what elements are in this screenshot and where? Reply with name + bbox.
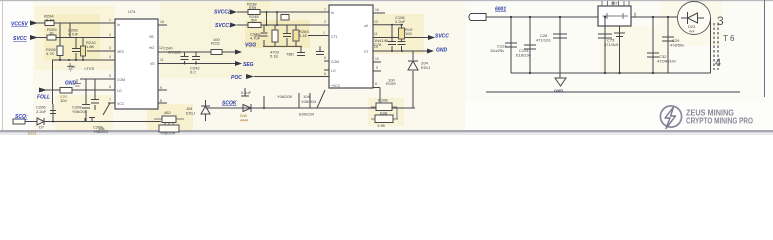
svg-text:3: 3 bbox=[109, 46, 111, 50]
svg-text:VB: VB bbox=[149, 35, 154, 39]
svg-text:1.98: 1.98 bbox=[377, 123, 386, 128]
svg-text:VGG: VGG bbox=[245, 43, 256, 49]
svg-text:GND: GND bbox=[65, 81, 77, 87]
svg-text:5M: 5M bbox=[251, 18, 257, 23]
svg-text:100: 100 bbox=[388, 78, 395, 83]
svg-text:7: 7 bbox=[109, 98, 111, 102]
svg-text:5.1E: 5.1E bbox=[270, 54, 279, 59]
svg-text:100: 100 bbox=[405, 31, 412, 36]
svg-text:9: 9 bbox=[160, 86, 162, 90]
svg-text:HO: HO bbox=[149, 46, 154, 50]
svg-text:Y06/204: Y06/204 bbox=[301, 99, 317, 104]
svg-text:104: 104 bbox=[60, 98, 67, 103]
svg-text:CT1: CT1 bbox=[331, 35, 338, 39]
svg-text:478/50v: 478/50v bbox=[670, 43, 684, 48]
svg-text:471/3c9: 471/3c9 bbox=[604, 42, 619, 47]
svg-text:Y06/204: Y06/204 bbox=[72, 109, 88, 114]
svg-text:CRYPTO MINING PRO: CRYPTO MINING PRO bbox=[686, 116, 753, 126]
svg-text:E98: E98 bbox=[380, 111, 388, 116]
svg-text:4444: 4444 bbox=[240, 119, 248, 123]
svg-text:GND: GND bbox=[554, 89, 563, 94]
svg-text:4.7uF: 4.7uF bbox=[250, 36, 261, 41]
svg-text:VCC5V: VCC5V bbox=[11, 22, 28, 28]
svg-text:4.7uF: 4.7uF bbox=[68, 32, 79, 37]
svg-text:11: 11 bbox=[374, 32, 378, 36]
svg-text:Y06/209: Y06/209 bbox=[277, 94, 293, 99]
svg-text:11: 11 bbox=[160, 58, 164, 62]
svg-text:8: 8 bbox=[375, 82, 377, 86]
svg-text:10k: 10k bbox=[98, 126, 104, 131]
svg-text:LO: LO bbox=[331, 69, 336, 73]
svg-text:13: 13 bbox=[374, 20, 378, 24]
svg-text:4: 4 bbox=[715, 57, 721, 69]
svg-text:=TVS: =TVS bbox=[84, 66, 94, 71]
svg-text:487: 487 bbox=[611, 1, 618, 6]
svg-text:D7: D7 bbox=[39, 125, 45, 130]
svg-text:3: 3 bbox=[717, 14, 724, 28]
svg-text:1K: 1K bbox=[49, 31, 54, 36]
svg-text:0K/182: 0K/182 bbox=[168, 50, 181, 55]
svg-text:10u/25v: 10u/25v bbox=[490, 48, 504, 53]
svg-text:1: 1 bbox=[109, 18, 111, 22]
svg-text:SVCC: SVCC bbox=[435, 34, 449, 40]
svg-text:E51J: E51J bbox=[421, 65, 430, 70]
svg-text:SEG: SEG bbox=[243, 62, 254, 68]
svg-text:2: 2 bbox=[324, 20, 326, 24]
svg-text:471/103: 471/103 bbox=[536, 38, 551, 43]
svg-text:SVCC1: SVCC1 bbox=[215, 23, 232, 29]
svg-text:T 6: T 6 bbox=[723, 34, 735, 43]
svg-text:6: 6 bbox=[324, 72, 326, 76]
svg-text:E99: E99 bbox=[249, 5, 257, 10]
svg-text:+VCC: +VCC bbox=[331, 84, 341, 88]
svg-text:16: 16 bbox=[375, 8, 379, 12]
svg-text:COM: COM bbox=[117, 78, 125, 82]
svg-text:9: 9 bbox=[376, 66, 378, 70]
svg-text:VS: VS bbox=[150, 62, 155, 66]
svg-text:0.1uF: 0.1uF bbox=[241, 90, 252, 95]
svg-text:SVCC2: SVCC2 bbox=[214, 10, 231, 16]
svg-text:1.8K: 1.8K bbox=[86, 44, 95, 49]
svg-text:R108: R108 bbox=[378, 98, 388, 103]
svg-text:4724F/10v: 4724F/10v bbox=[657, 59, 676, 64]
svg-text:2: 2 bbox=[109, 33, 111, 37]
svg-text:1: 1 bbox=[323, 31, 325, 35]
svg-text:SCQ:: SCQ: bbox=[15, 114, 28, 120]
svg-text:GND: GND bbox=[436, 48, 448, 54]
svg-text:E09/234: E09/234 bbox=[299, 112, 315, 117]
svg-text:E51J: E51J bbox=[186, 111, 195, 116]
svg-text:LO: LO bbox=[117, 89, 122, 93]
svg-text:10: 10 bbox=[375, 57, 379, 61]
svg-text:4x4: 4x4 bbox=[689, 30, 695, 34]
svg-text:VES: VES bbox=[117, 50, 125, 54]
svg-text:5: 5 bbox=[324, 56, 326, 60]
svg-text:6001: 6001 bbox=[495, 7, 506, 13]
svg-text:2.2uF: 2.2uF bbox=[36, 109, 47, 114]
svg-text:Y5V: Y5V bbox=[68, 64, 76, 69]
svg-text:TBD: TBD bbox=[286, 52, 294, 57]
svg-text:COM: COM bbox=[331, 60, 339, 64]
svg-text:o5: o5 bbox=[364, 24, 368, 28]
svg-text:E221: E221 bbox=[28, 132, 36, 136]
svg-text:D23: D23 bbox=[688, 24, 696, 29]
svg-text:VT: VT bbox=[364, 50, 368, 54]
svg-text:482: 482 bbox=[164, 110, 171, 115]
svg-text:FOLL: FOLL bbox=[37, 95, 50, 101]
svg-text:100: 100 bbox=[213, 37, 220, 42]
svg-text:In: In bbox=[331, 11, 334, 15]
svg-text:0.1E: 0.1E bbox=[299, 33, 308, 38]
svg-text:VCC: VCC bbox=[117, 102, 125, 106]
svg-text:2.2uF: 2.2uF bbox=[395, 19, 406, 24]
svg-text:6: 6 bbox=[109, 85, 111, 89]
svg-text:SVCC: SVCC bbox=[13, 36, 27, 42]
svg-text:0.C: 0.C bbox=[190, 70, 196, 75]
svg-text:8: 8 bbox=[160, 99, 162, 103]
svg-text:SCOK: SCOK bbox=[222, 101, 237, 107]
svg-text:4: 4 bbox=[109, 55, 111, 59]
svg-text:18: 18 bbox=[160, 20, 164, 24]
svg-text:D08: D08 bbox=[240, 114, 247, 118]
svg-text:C78: C78 bbox=[374, 42, 382, 47]
svg-text:In: In bbox=[117, 23, 120, 27]
svg-text:4.7K: 4.7K bbox=[46, 51, 55, 56]
svg-text:5: 5 bbox=[109, 74, 111, 78]
svg-text:POC: POC bbox=[231, 75, 242, 81]
svg-text:U74: U74 bbox=[128, 9, 136, 14]
svg-text:5.1K: 5.1K bbox=[46, 17, 55, 22]
svg-text:7: 7 bbox=[324, 8, 326, 12]
svg-text:Y06/204: Y06/204 bbox=[160, 131, 176, 136]
svg-text:E18/234: E18/234 bbox=[516, 53, 532, 58]
